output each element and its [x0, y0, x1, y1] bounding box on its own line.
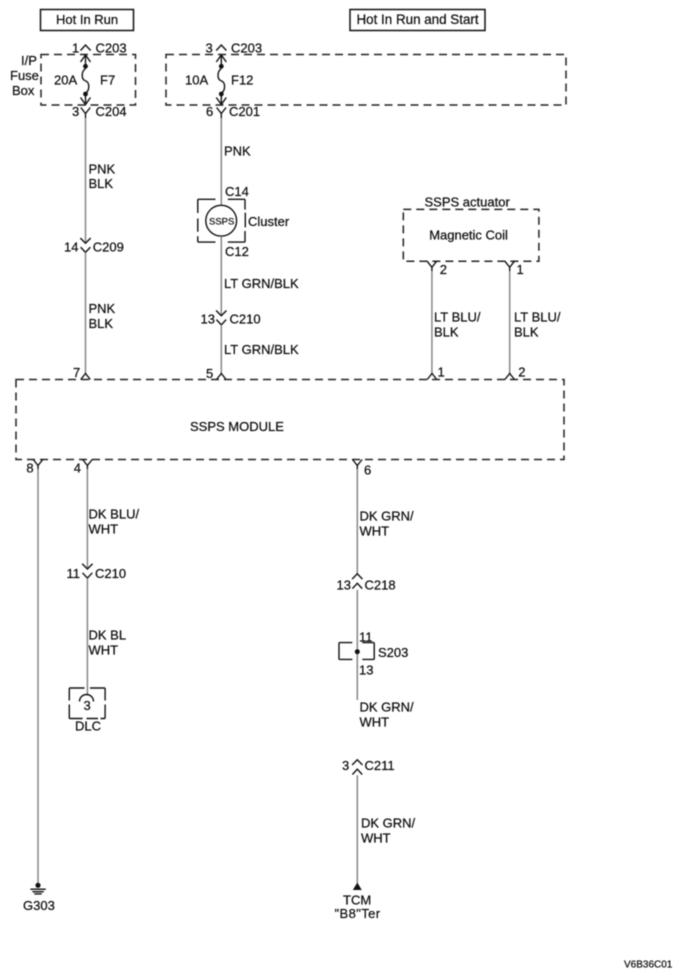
svg-text:2: 2: [440, 262, 447, 277]
svg-text:PNK: PNK: [224, 144, 251, 159]
svg-text:1: 1: [438, 365, 445, 380]
svg-text:Fuse: Fuse: [10, 68, 39, 83]
svg-text:1: 1: [72, 41, 79, 56]
svg-text:BLK: BLK: [89, 316, 114, 331]
connector C203 pin 1: [72, 41, 127, 56]
wire LT GRN/BLK upper: [220, 236, 222, 316]
svg-text:10A: 10A: [185, 73, 208, 88]
SSPS actuator box: [403, 209, 539, 261]
svg-text:WHT: WHT: [89, 643, 119, 658]
connector C210 pin 13: [201, 311, 261, 327]
svg-text:DLC: DLC: [75, 719, 101, 734]
svg-text:20A: 20A: [54, 73, 77, 88]
svg-text:WHT: WHT: [89, 522, 119, 537]
SSPS module pin 6: [353, 460, 372, 478]
connector C203 pin 3: [206, 41, 263, 56]
svg-text:WHT: WHT: [360, 524, 390, 539]
fuse F12: [185, 55, 253, 105]
splice S203: [339, 630, 408, 678]
svg-text:DK GRN/: DK GRN/: [360, 509, 415, 524]
svg-text:WHT: WHT: [361, 831, 391, 846]
svg-text:13: 13: [201, 312, 215, 327]
DLC pin 3 cavity arc: [80, 695, 94, 714]
svg-text:F7: F7: [100, 73, 115, 88]
wire label PNK BLK: [89, 162, 116, 192]
wire label DK GRN/WHT 1: [360, 509, 415, 539]
wire PNK/BLK lower: [85, 252, 87, 373]
svg-text:F12: F12: [231, 73, 253, 88]
svg-text:Magnetic Coil: Magnetic Coil: [429, 228, 508, 243]
SSPS MODULE box: [16, 380, 564, 460]
svg-text:3: 3: [206, 41, 213, 56]
svg-text:Box: Box: [12, 83, 35, 98]
wire label DK GRN/WHT 2: [360, 700, 415, 730]
svg-text:DK GRN/: DK GRN/: [361, 816, 416, 831]
svg-text:SSPS actuator: SSPS actuator: [425, 195, 511, 210]
svg-text:7: 7: [73, 365, 80, 380]
cluster box: [198, 199, 290, 242]
SSPS module pin 5: [206, 366, 226, 381]
svg-text:4: 4: [74, 461, 81, 476]
wire to ground: [37, 469, 39, 883]
svg-text:V6B36C01: V6B36C01: [624, 960, 673, 971]
wire label LT BLU/BLK left: [434, 310, 481, 340]
svg-text:DK BL: DK BL: [89, 628, 127, 643]
svg-text:13: 13: [337, 578, 351, 593]
svg-text:C203: C203: [231, 41, 262, 56]
svg-text:6: 6: [364, 463, 371, 478]
svg-text:DK GRN/: DK GRN/: [360, 700, 415, 715]
wire DK GRN/WHT upper: [356, 469, 358, 574]
SSPS telltale circle: [206, 205, 237, 236]
svg-text:S203: S203: [378, 645, 408, 660]
wire label DK BL WHT: [89, 628, 127, 658]
svg-text:WHT: WHT: [360, 715, 390, 730]
SSPS module pin 2: [505, 365, 526, 380]
svg-text:LT BLU/: LT BLU/: [514, 310, 561, 325]
svg-text:Hot In Run and Start: Hot In Run and Start: [357, 12, 479, 27]
wire label PNK BLK 2: [89, 301, 116, 331]
svg-text:BLK: BLK: [434, 325, 459, 340]
svg-text:C12: C12: [225, 244, 249, 259]
svg-text:SSPS MODULE: SSPS MODULE: [190, 419, 284, 434]
svg-text:Hot In Run: Hot In Run: [56, 12, 118, 27]
header box Hot In Run: [41, 10, 134, 31]
ground G303: [23, 883, 55, 913]
wire LT BLU/BLK left: [431, 271, 433, 374]
svg-text:"B8"Ter: "B8"Ter: [335, 906, 381, 921]
svg-text:3: 3: [84, 698, 91, 713]
SSPS module pin 4: [74, 460, 92, 476]
svg-text:LT GRN/BLK: LT GRN/BLK: [224, 342, 299, 357]
connector C209 pin 14: [64, 238, 124, 255]
svg-text:11: 11: [67, 566, 81, 581]
svg-text:PNK: PNK: [89, 162, 116, 177]
svg-text:1: 1: [517, 262, 524, 277]
wire label LT BLU/BLK right: [514, 310, 561, 340]
svg-text:8: 8: [26, 461, 33, 476]
wire label DK BLU/WHT: [89, 507, 140, 537]
wire DK BLU/WHT: [86, 469, 88, 569]
svg-text:G303: G303: [23, 898, 55, 913]
svg-text:C203: C203: [96, 41, 127, 56]
connector C218 pin 13: [337, 574, 396, 593]
svg-text:C218: C218: [365, 578, 396, 593]
svg-text:I/P: I/P: [21, 53, 37, 68]
connector C201 pin 6: [206, 104, 260, 119]
label TCM B8 Ter: [335, 893, 381, 922]
wire PNK/BLK upper: [85, 118, 87, 243]
I/P fuse box 2 outline: [166, 55, 566, 106]
wire PNK: [220, 118, 222, 206]
svg-text:C210: C210: [95, 566, 126, 581]
svg-text:C204: C204: [96, 104, 127, 119]
svg-text:BLK: BLK: [514, 325, 539, 340]
svg-text:DK BLU/: DK BLU/: [89, 507, 140, 522]
svg-text:C14: C14: [225, 184, 249, 199]
SSPS module pin 1: [427, 365, 445, 380]
TCM terminal arrow: [353, 883, 362, 891]
connector C211 pin 3: [342, 758, 395, 775]
wire DK BL/WHT: [86, 578, 88, 695]
actuator pin 1: [505, 261, 524, 277]
svg-text:13: 13: [359, 663, 373, 678]
DLC box: [69, 688, 105, 719]
svg-text:C211: C211: [365, 758, 395, 773]
svg-text:LT GRN/BLK: LT GRN/BLK: [224, 276, 299, 291]
svg-text:Cluster: Cluster: [248, 214, 290, 229]
svg-text:14: 14: [64, 240, 78, 255]
label I/P Fuse Box: [10, 53, 39, 98]
svg-text:2: 2: [518, 365, 525, 380]
wire label DK GRN/WHT 3: [361, 816, 416, 846]
connector C210 pin 11: [67, 564, 127, 581]
svg-text:LT BLU/: LT BLU/: [434, 310, 481, 325]
svg-text:C210: C210: [230, 312, 261, 327]
svg-text:C201: C201: [229, 104, 260, 119]
svg-text:3: 3: [72, 104, 79, 119]
SSPS module pin 8: [26, 460, 42, 476]
I/P fuse box outline: [41, 55, 136, 106]
header box Hot In Run and Start: [350, 10, 485, 31]
svg-text:BLK: BLK: [89, 176, 114, 191]
wire DK GRN/WHT to TCM: [356, 775, 358, 883]
svg-text:C209: C209: [93, 240, 124, 255]
svg-text:PNK: PNK: [89, 301, 116, 316]
connector C204 pin 3: [72, 104, 127, 119]
wire to S203: [356, 590, 358, 700]
svg-text:SSPS: SSPS: [209, 216, 234, 227]
svg-text:3: 3: [342, 758, 349, 773]
fuse F7: [54, 55, 115, 105]
actuator pin 2: [427, 261, 447, 277]
wire LT GRN/BLK lower: [220, 325, 222, 374]
svg-text:6: 6: [206, 104, 213, 119]
SSPS module pin 7: [73, 365, 90, 380]
wire LT BLU/BLK right: [509, 271, 511, 374]
